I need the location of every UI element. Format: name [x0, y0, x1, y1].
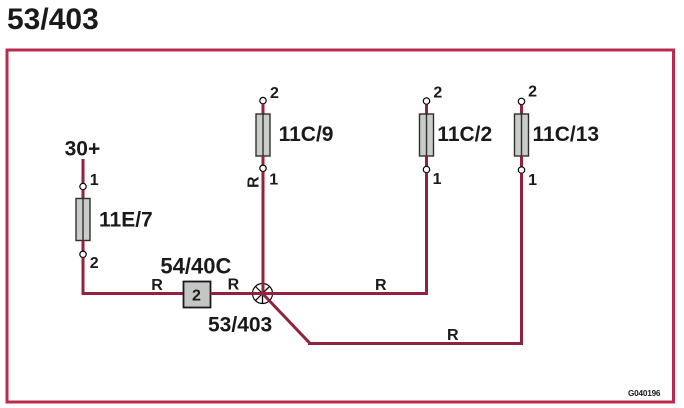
fuse 11E/7: [76, 199, 90, 241]
wire fuse to pin2 of 11E/7: [82, 241, 85, 252]
wire 30+ to pin1 of 11E/7: [82, 159, 85, 183]
svg-text:R: R: [228, 277, 240, 294]
wire horizontal through junction: [252, 292, 273, 295]
wire 11C/2 down to bus: [425, 173, 428, 295]
pin circle 2 of 11C/13: [518, 98, 524, 104]
svg-text:1: 1: [90, 172, 99, 189]
svg-text:1: 1: [528, 172, 537, 189]
svg-text:1: 1: [433, 171, 442, 188]
svg-text:54/40C: 54/40C: [160, 254, 231, 279]
wire 11C/13 down to lower run: [520, 173, 523, 345]
pin circle 1 of 11C/9: [260, 165, 266, 171]
svg-text:1: 1: [269, 172, 278, 189]
wire fuse to pin1 of 11C/13: [520, 156, 523, 167]
pin circle 1 of 11C/13: [518, 167, 524, 173]
wire pin2 down to bus: [82, 258, 85, 295]
svg-text:53/403: 53/403: [208, 314, 272, 337]
wire junction to 11C/2 branch: [272, 292, 428, 295]
wire connector to junction: [211, 292, 254, 295]
svg-text:11C/9: 11C/9: [279, 123, 334, 146]
pin circle 1 of 11C/2: [423, 166, 429, 172]
svg-text:R: R: [246, 176, 263, 188]
fuse 11C/9: [256, 114, 270, 156]
wire pin1 to fuse 11E/7: [82, 190, 85, 199]
svg-text:53/403: 53/403: [7, 3, 99, 36]
wire vertical into junction: [262, 283, 265, 294]
wire 11C/9 down to junction: [262, 172, 265, 284]
wire fuse to pin1 of 11C/9: [262, 156, 265, 165]
fuse 11C/2: [420, 114, 434, 156]
pin circle 2 of 11E/7: [80, 251, 86, 257]
wire diagonal from junction: [263, 294, 310, 344]
connector 54/40C pin 2 box: [184, 282, 211, 308]
junction 53/403 symbol: [253, 284, 273, 304]
wire horizontal bus left: [82, 292, 185, 295]
svg-text:11E/7: 11E/7: [99, 209, 153, 232]
svg-text:2: 2: [90, 255, 99, 272]
svg-text:30+: 30+: [65, 138, 101, 161]
svg-text:R: R: [375, 277, 387, 294]
svg-text:R: R: [151, 277, 163, 294]
svg-text:R: R: [447, 327, 459, 344]
svg-text:2: 2: [270, 85, 279, 102]
fuse 11C/13: [515, 114, 529, 156]
svg-text:2: 2: [528, 84, 537, 101]
wire pin2 to fuse 11C/9: [262, 104, 265, 114]
pin circle 2 of 11C/2: [423, 98, 429, 104]
svg-text:G040196: G040196: [628, 389, 661, 398]
svg-text:11C/13: 11C/13: [533, 123, 600, 146]
wire fuse to pin1 of 11C/2: [425, 156, 428, 166]
wire pin2 to fuse 11C/2: [425, 104, 428, 114]
wire lower horizontal run: [308, 342, 523, 345]
pin circle 2 of 11C/9: [260, 97, 266, 103]
svg-text:2: 2: [192, 287, 201, 304]
svg-text:2: 2: [433, 85, 442, 102]
pin circle 1 of 11E/7: [80, 183, 86, 189]
wire pin2 to fuse 11C/13: [520, 105, 523, 114]
svg-text:11C/2: 11C/2: [437, 123, 492, 146]
